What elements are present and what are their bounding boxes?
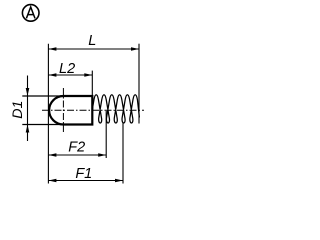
svg-text:F1: F1 bbox=[75, 166, 92, 182]
svg-text:L2: L2 bbox=[59, 61, 75, 77]
svg-text:L: L bbox=[88, 33, 96, 49]
svg-text:F2: F2 bbox=[68, 139, 85, 155]
svg-text:D1: D1 bbox=[10, 101, 26, 119]
